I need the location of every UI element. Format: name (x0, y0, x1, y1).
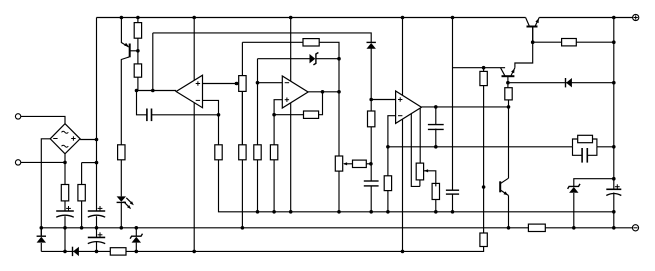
resistor R15 (432, 183, 439, 199)
wire pot R14 wiper (424, 171, 436, 187)
input terminal J2 (15, 160, 20, 165)
resistor R10 (270, 145, 277, 160)
junction dot 44 (40, 226, 44, 230)
potentiometer R5 wiper arrow (235, 82, 239, 85)
wire RC parallel block frame 3 (573, 147, 583, 156)
wire U2 plus input branch (274, 100, 282, 115)
junction dot 8 (136, 49, 140, 53)
junction dot 23 (386, 145, 390, 149)
wire R20 bottom corner to lower rail (403, 247, 484, 252)
diode D7 (Q3 base) (566, 78, 572, 87)
resistor R6 (303, 39, 319, 46)
wire U3 pin to pot top (419, 109, 421, 164)
junction dot 10 (151, 89, 155, 93)
wire feedback line (388, 146, 573, 148)
junction dot 39 (369, 210, 373, 214)
wire bridge bottom corner to resistor R3 (64, 154, 66, 185)
junction dot 26 (434, 105, 438, 109)
resistor R25 (LED series) (118, 145, 125, 160)
junction dot 3 (192, 16, 196, 20)
zener diode Z3 (568, 184, 580, 193)
potentiometer R5 body (239, 76, 246, 92)
wire op-amp U3 plus input (371, 99, 395, 101)
resistor R18 (505, 88, 512, 100)
resistor R21 (Q2 base) (562, 39, 577, 46)
wire zener Z3 bottom to 0V rail (573, 193, 575, 228)
junction dot 29 (506, 81, 510, 85)
capacitor C1 (U1 feedback) (147, 109, 152, 122)
junction dot 17 (337, 90, 341, 94)
junction dot 48 (120, 226, 124, 230)
wire input terminal 2 lead (21, 161, 65, 163)
resistor R1 (134, 23, 141, 39)
junction dot 9 (135, 89, 139, 93)
junction dot 16 (337, 57, 341, 61)
resistor R3 (61, 185, 68, 201)
wire mid rail to diode D5 (153, 33, 371, 43)
resistor R17 (480, 71, 487, 85)
wire U1 feedback cap branch (137, 91, 147, 115)
potentiometer R11 wiper arrow (343, 162, 347, 165)
wire LED cathode to 0V rail (120, 202, 122, 227)
wire supply crossover through U2 (290, 18, 292, 212)
junction dot 25 (612, 145, 616, 149)
junction dot 19 (95, 138, 99, 142)
resistor R24 (lower rail) (110, 248, 126, 255)
junction dot 33 (482, 185, 486, 189)
input terminal J1 (15, 114, 20, 119)
wire U1 minus input to resistor R7 (203, 100, 219, 144)
resistor R20 (480, 233, 487, 247)
diode D5 (367, 42, 376, 48)
resistor R16 (U2 feedback) (304, 111, 319, 118)
capacitor C5 (RC block) (582, 148, 587, 163)
wire Q4 emitter to 0V rail (508, 196, 510, 228)
wire Q3 emitter rise to Q2 base (515, 27, 533, 68)
wire U2 minus input branch (258, 82, 283, 84)
junction dot 36 (272, 210, 276, 214)
wire bypass cap column from top rail (452, 18, 454, 191)
wire zener Z2 bottom to lower rail (135, 243, 137, 252)
wire diode D1 bottom corner (40, 243, 42, 252)
wire left supply riser from bridge + to top rail (96, 18, 98, 212)
wire R8 bottom to 0V rail (241, 160, 243, 228)
wire U3 minus input (388, 116, 396, 176)
wire RC parallel block frame (573, 139, 578, 147)
wire zener Z1 line to U2 minus input (258, 58, 310, 60)
wire wiper resistor R12 to column (366, 163, 371, 165)
wire R2 bottom to op-amp U1 output node (137, 77, 139, 90)
wire Q1 base link (130, 50, 138, 52)
resistor R9 (254, 145, 261, 160)
wire U3 output line (422, 106, 509, 108)
junction dot 47 (95, 226, 99, 230)
transistor Q3 (NPN driver) (501, 68, 515, 77)
junction dot 34 (612, 177, 616, 181)
junction dot 43 (612, 210, 616, 214)
junction dot 56 (135, 250, 139, 254)
wire Q4 base column to R20 (483, 187, 485, 233)
junction dot 12 (235, 82, 239, 86)
wire U1 output node rise to mid rail (152, 33, 154, 91)
op-amp U3 (396, 91, 422, 123)
wire U1 lower power pin to bottom rail (193, 103, 195, 252)
wire top rail left segment (V+ rail) (97, 17, 526, 19)
junction dot 55 (95, 250, 99, 254)
wire output column below cap C6 (613, 193, 615, 228)
resistor R4 (78, 185, 85, 201)
junction dot 1 (120, 16, 124, 20)
wire R7 bottom to rail L1 (219, 160, 614, 212)
transistor Q2 (NPN pass, top) (526, 18, 540, 43)
wire RC parallel block frame 2 (593, 139, 597, 147)
resistor R2 (134, 64, 141, 77)
resistor R23 (RC block) (578, 135, 593, 142)
wire U2 plus node down to R10 (273, 115, 275, 145)
diode D1 (37, 236, 46, 242)
wire R8 top stub (241, 91, 243, 144)
wire U1 plus input (203, 83, 237, 85)
wire long crossover from top rail (402, 18, 404, 252)
junction dot 22 (369, 162, 373, 166)
capacitor C7 (electrolytic) (56, 206, 74, 217)
wire output column (613, 18, 615, 190)
wire U2 output line (308, 91, 339, 93)
capacitor C4 (D5 chain) (364, 181, 379, 186)
resistor R7 (215, 145, 222, 160)
wire Q3 base line (507, 76, 509, 88)
junction dot 20 (95, 161, 99, 165)
junction dot 14 (272, 113, 276, 117)
junction dot 2 (136, 16, 140, 20)
wire bridge - output down left side (41, 139, 50, 236)
wire feedback resistor to output (319, 92, 323, 115)
junction dot 58 (401, 250, 405, 254)
wire input terminal 1 lead (21, 116, 65, 123)
wire U2 output top link (242, 41, 303, 43)
wire Q3 base to diode D7 line (508, 82, 614, 84)
op-amp U2 (282, 76, 308, 108)
junction dot 15 (321, 90, 325, 94)
wire feedback line right of RC (597, 146, 614, 148)
wire U2 feedback resistor line (274, 114, 303, 116)
junction dot 45 (63, 226, 67, 230)
junction dot 7 (612, 16, 616, 20)
resistor R19 (D5 chain) (368, 111, 375, 127)
junction dot 6 (451, 16, 455, 20)
resistor R12 (353, 160, 367, 167)
potentiometer R11 body (335, 156, 342, 171)
junction dot 24 (434, 145, 438, 149)
wire U2 minus column (257, 59, 259, 145)
wire bypass cap bottom to rail L1 (452, 194, 454, 212)
junction dot 57 (192, 250, 196, 254)
wire resistor R3 to cap C7 (64, 201, 66, 211)
wire cap C9 bottom to lower rail (96, 242, 98, 251)
junction dot 13 (256, 81, 260, 85)
junction dot 30 (612, 40, 616, 44)
wire lower rail L3 (41, 250, 402, 252)
wire R17 hang (483, 68, 485, 72)
capacitor C3 (bypass) (446, 190, 459, 194)
junction dot 37 (289, 210, 293, 214)
capacitor C2 (U3 output) (428, 125, 444, 130)
wire zener Z1 cathode to output column (316, 58, 339, 60)
diode D2 (lower rail) (73, 247, 79, 256)
wire resistor R4 leads (81, 163, 83, 185)
wire cap C1 to minus-input column (152, 114, 219, 116)
potentiometer R14 body (416, 163, 423, 180)
wire RC parallel block frame 4 (587, 147, 597, 156)
wire pot R11 wiper link (344, 163, 353, 165)
junction dot 50 (241, 226, 245, 230)
wire Q3 collector feed (453, 67, 506, 69)
junction dot 54 (63, 250, 67, 254)
junction dot 28 (482, 66, 486, 70)
wire U1 power pin from top rail (193, 18, 195, 81)
junction dot 35 (256, 210, 260, 214)
junction dot 53 (612, 226, 616, 230)
capacitor C6 (electrolytic, output) (606, 184, 621, 195)
wire cap C2 top branch (435, 107, 437, 125)
wire Q1 emitter to top rail (121, 18, 128, 48)
junction dot 41 (434, 210, 438, 214)
wire 0V rail L2 (41, 227, 528, 229)
wire R18 bottom to Q4 collector (508, 100, 510, 178)
junction dot 11 (217, 113, 221, 117)
wire R21 to output column (576, 41, 614, 43)
resistor R8 (239, 145, 246, 160)
junction dot 46 (80, 226, 84, 230)
transistor Q1 (PNP, left) (124, 43, 130, 58)
wire cap C4 bottom to rail L1 (370, 186, 372, 212)
resistor R22 (0V rail) (528, 224, 545, 231)
wire R17 bottom to Q4 base (483, 86, 485, 187)
wire U3 pin to pot bottom (411, 114, 420, 187)
wire cap C8 bottom / cap C9 column (96, 216, 98, 237)
wire diode D1 top (40, 228, 42, 236)
junction dot 49 (135, 226, 139, 230)
wire R15 bottom to rail L1 (435, 200, 437, 212)
wire R6 to output column (319, 42, 339, 156)
wire R10 bottom to rail L1 (273, 160, 275, 212)
wire cap C7 to 0V rail and lower rail (64, 216, 66, 251)
wire resistor R4 top link (82, 162, 97, 164)
wire pot R14 bottom stub (419, 180, 421, 187)
wire resistor R1 chain from top rail (137, 18, 139, 23)
output terminal + (top right) (633, 14, 639, 20)
transistor Q4 (NPN, lower right) (500, 178, 508, 195)
wire Q2 base resistor line (533, 41, 562, 43)
wire resistor R4 bottom to 0V rail (81, 201, 83, 228)
wire cap C2 bottom branch (435, 129, 437, 147)
junction dot 27 (507, 105, 511, 109)
wire pot R11 bottom to rail L1 (338, 171, 340, 212)
resistor R13 (384, 176, 391, 191)
junction dot 32 (531, 40, 535, 44)
wire 0V rail L2 right segment (545, 227, 632, 229)
potentiometer R14 wiper arrow (424, 169, 428, 172)
capacitor C9 (electrolytic) (88, 232, 105, 243)
wire R5 bottom to R8 (241, 91, 243, 144)
junction dot 5 (401, 16, 405, 20)
wire top rail right segment to output terminal (539, 17, 632, 19)
wire R1 to base node to R2 (137, 38, 139, 64)
zener diode Z1 (U2) (310, 53, 319, 65)
capacitor C8 (electrolytic) (88, 206, 105, 217)
wire zener Z3 top link (574, 179, 614, 187)
wire bridge + output link (80, 139, 96, 141)
zener diode Z2 (130, 234, 142, 243)
wire Q1 collector down to LED (121, 57, 129, 197)
op-amp U1 (mirrored, points left) (176, 75, 202, 108)
wire R9 bottom to rail L1 (257, 160, 259, 212)
junction dot 42 (451, 210, 455, 214)
wire diode D5 chain down (370, 49, 372, 182)
junction dot 18 (63, 161, 67, 165)
junction dot 21 (369, 98, 373, 102)
bridge rectifier BR1 (50, 124, 80, 154)
output terminal - (bottom right) (632, 225, 638, 231)
junction dot 31 (612, 81, 616, 85)
junction dot 4 (289, 16, 293, 20)
wire zener Z2 anode top (135, 228, 137, 236)
wire R13 bottom to rail L1 (387, 191, 389, 212)
junction dot 40 (386, 210, 390, 214)
junction dot 52 (572, 226, 576, 230)
wire pot R5 top from op-amp U2 output rail (241, 42, 243, 75)
junction dot 51 (507, 226, 511, 230)
LED D4 (117, 196, 134, 209)
junction dot 38 (337, 210, 341, 214)
wire R15 top from wiper (435, 183, 437, 186)
wire op-amp U1 output line (137, 90, 177, 92)
